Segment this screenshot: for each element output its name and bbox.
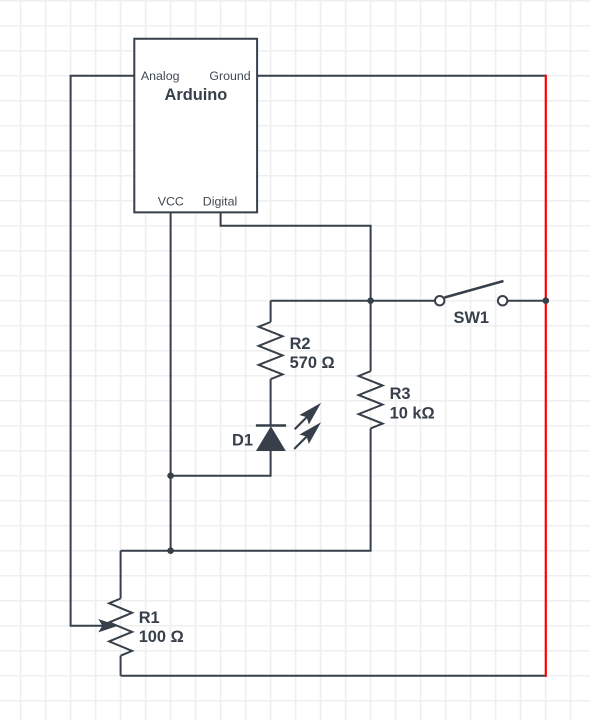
junction node C [167,547,174,554]
wire R2 to D1 [270,379,272,425]
SW1 contact left [435,296,444,305]
wire R3 top [370,301,372,372]
svg-text:Ground: Ground [209,69,250,83]
wire Ground to right rail [257,75,546,77]
red rail [545,75,547,677]
junction node on red rail [543,297,550,304]
svg-text:Digital: Digital [203,194,237,208]
wire R2 top [270,301,272,322]
wire mid horizontal to switch [271,300,436,302]
svg-text:570 Ω: 570 Ω [290,354,335,372]
resistor R1 [109,599,132,656]
R1 wiper arrowhead [100,620,116,631]
SW1 contact right [498,296,507,305]
svg-text:Analog: Analog [141,69,180,83]
svg-text:Arduino: Arduino [164,86,227,104]
svg-text:R1: R1 [139,609,160,627]
wire switch to right rail [507,300,546,302]
wire VCC down [170,212,172,550]
wire D1 to node B [171,450,271,476]
wire bottom rail [121,675,546,677]
svg-text:VCC: VCC [158,194,184,208]
LED arrow 2 [294,424,320,449]
junction node B [167,472,174,479]
Arduino module box [134,39,257,213]
svg-text:10 kΩ: 10 kΩ [390,404,435,422]
wire R3 bottom to mid rail [121,428,371,550]
svg-text:R2: R2 [290,335,311,353]
switch SW1 [435,281,507,305]
LED arrow 1 [295,404,320,429]
wire Digital to node A [221,212,371,300]
LED D1 [256,426,286,451]
SW1 lever [445,281,504,298]
resistor R2 [259,322,283,379]
wire R1 top [120,551,122,599]
wire Analog to R1 wiper [71,76,135,626]
wire R1 bottom [120,656,122,676]
junction node A [367,297,374,304]
resistor R3 [359,371,383,428]
svg-text:100 Ω: 100 Ω [139,628,184,646]
svg-text:SW1: SW1 [454,309,490,327]
svg-text:D1: D1 [232,431,253,449]
svg-text:R3: R3 [390,385,411,403]
